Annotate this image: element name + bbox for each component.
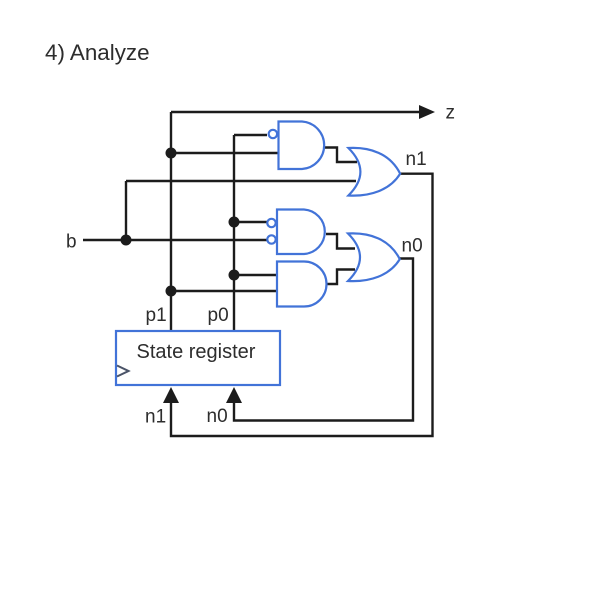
wire p0 vertical <box>233 135 235 331</box>
OR gate U5 <box>348 233 400 281</box>
node junction b <box>121 235 132 246</box>
inverter bubble U1 input <box>269 130 277 138</box>
register clock triangle <box>117 366 129 377</box>
wire b vertical branch <box>125 181 127 240</box>
svg-text:n1: n1 <box>145 407 166 428</box>
wire U1 output to U4 <box>325 148 357 163</box>
OR gate U4 <box>348 148 400 196</box>
inverter bubble U2 input a <box>267 219 275 227</box>
arrowhead z <box>419 105 435 119</box>
wire b input <box>83 239 267 241</box>
node junction p1-z <box>166 148 177 159</box>
AND gate U2 <box>277 210 325 255</box>
svg-text:b: b <box>66 232 77 253</box>
svg-text:p0: p0 <box>208 305 229 326</box>
svg-text:n0: n0 <box>207 406 228 427</box>
AND gate U3 <box>277 262 327 307</box>
svg-text:n0: n0 <box>402 236 423 257</box>
svg-text:n1: n1 <box>406 149 427 170</box>
wire b to U4 lower input <box>126 180 356 182</box>
wire p0 to U2 upper inverted input <box>234 221 267 223</box>
wire U2 output to U5 <box>326 234 355 249</box>
svg-text:p1: p1 <box>146 305 167 326</box>
wire p1 vertical <box>170 112 172 331</box>
wire z output from p1 vertical <box>171 111 421 113</box>
register REG1 box <box>116 331 280 385</box>
svg-text:z: z <box>446 103 456 124</box>
wire p1 to U3 lower input <box>171 290 279 292</box>
svg-text:State register: State register <box>137 341 256 363</box>
AND gate U1 <box>279 122 325 170</box>
arrowhead n1 into register <box>163 387 179 403</box>
inverter bubble U2 input b <box>267 235 275 243</box>
svg-text:4) Analyze: 4) Analyze <box>45 40 150 65</box>
wire n0 feedback <box>234 259 413 421</box>
wire p0 to U3 upper input <box>234 274 279 276</box>
node junction p0-U2 <box>229 217 240 228</box>
wire U3 output to U5 <box>326 270 355 285</box>
node junction p0-U3 <box>229 270 240 281</box>
wire p1 to U1 lower input <box>171 152 279 154</box>
wire n1 feedback <box>171 174 433 436</box>
node junction p1-U3 <box>166 286 177 297</box>
arrowhead n0 into register <box>226 387 242 403</box>
wire p0 to U1 inverted input <box>234 134 267 136</box>
